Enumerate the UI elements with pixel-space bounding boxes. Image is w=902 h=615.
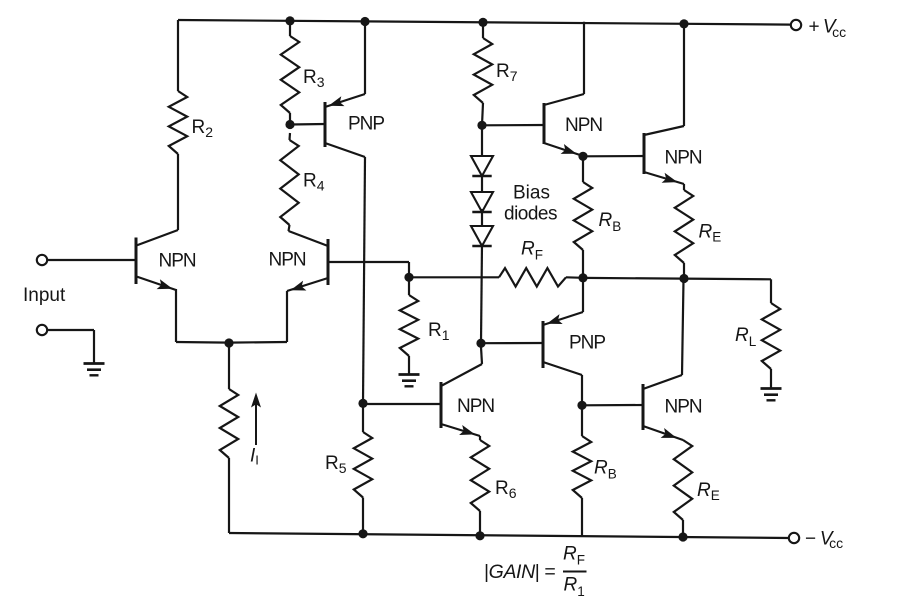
svg-text:NPN: NPN [159,251,196,272]
svg-text:NPN: NPN [457,396,494,417]
svg-text:PNP: PNP [569,333,605,354]
svg-text:NPN: NPN [565,115,602,136]
svg-text:NPN: NPN [665,148,702,169]
svg-text:|GAIN| =: |GAIN| = [484,561,555,583]
svg-text:diodes: diodes [504,204,557,225]
svg-text:Input: Input [23,285,66,306]
svg-text:PNP: PNP [348,114,384,135]
svg-text:NPN: NPN [269,250,306,271]
svg-text:NPN: NPN [665,397,702,418]
svg-text:Bias: Bias [513,183,550,204]
